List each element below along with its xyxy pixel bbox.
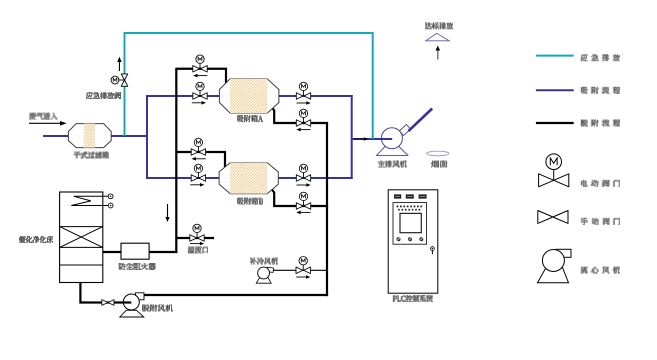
PLC key switch: [431, 247, 435, 254]
legend: desorption flow black sample line: [536, 122, 574, 124]
wire: black desorption return from box A outlet: [272, 107, 329, 123]
flow arrow right on main fan suction line: [354, 137, 368, 141]
wire: blue downcomer joining A and B outlets: [351, 95, 353, 179]
PLC knobs: [397, 237, 424, 241]
flow arrow right under V9: [190, 242, 204, 246]
main exhaust fan 主排风机: [377, 125, 411, 156]
heater element inside catalytic bed: [71, 194, 113, 208]
flow arrow right under V6: [190, 183, 204, 187]
wire: blue line dry filter to riser tee: [110, 135, 148, 137]
chimney mouth ellipse 烟囱: [427, 151, 449, 156]
PLC control cabinet PLC控制系统: [388, 190, 438, 293]
electric valve V3 on box A blue outlet: [296, 82, 310, 99]
electric valve V4 on box A black return: [296, 109, 310, 126]
wire: cyan emergency branch riser: [125, 33, 373, 139]
legend: adsorption flow blue sample line: [536, 89, 574, 91]
legend: electric valve symbol 电动阀门: [539, 154, 569, 187]
legend: manual valve symbol 手动阀门: [538, 211, 568, 224]
wire: blue inlet line to dry filter: [43, 135, 69, 137]
wire: blue riser between box A and box B feed lines: [146, 95, 148, 179]
wire: black overflow port stub: [176, 237, 214, 239]
wire: black desorption branch to box A inlet: [176, 69, 226, 84]
wire: black line catalytic bed to flame arrester: [103, 251, 122, 253]
flow arrow right under V3: [297, 101, 311, 105]
wire: black desorption left header vertical: [175, 68, 177, 253]
flow arrow right under V2: [192, 101, 206, 105]
electric valve V2 on box A blue feed: [193, 82, 207, 99]
up arrow under discharge triangle: [436, 46, 441, 60]
catalytic purification bed 催化净化床: [60, 192, 103, 283]
wire: blue outlet line from adsorption box B: [278, 177, 353, 179]
electric valve V7 on box B blue outlet: [296, 164, 310, 181]
wire: black drop from catalytic bed to desorption fan: [80, 282, 122, 303]
text labels (rasterized): [29, 113, 57, 120]
flow arrow left under V4: [296, 128, 310, 132]
dry filter box 干式过滤箱: [68, 124, 111, 148]
flow arrow right under V7: [297, 183, 311, 187]
dust flame arrester 防尘阻火器: [121, 243, 149, 259]
PLC screen: [400, 213, 421, 232]
electric valve V10 on cooling fan line: [296, 257, 310, 274]
wire: blue main fan suction line: [352, 138, 392, 140]
manual valve on desorption fan suction: [102, 300, 114, 306]
discharge-to-standard triangle 达标排放: [426, 33, 449, 41]
adsorption box B 吸附箱B: [219, 163, 278, 194]
flow arrow left under V8: [296, 211, 310, 215]
legend: emergency discharge cyan sample line: [536, 55, 574, 57]
waste gas inlet arrow 废气进入: [29, 121, 67, 126]
wire: thin line cooling fan to right header: [271, 269, 327, 271]
legend: centrifugal fan symbol 离心风机: [538, 249, 572, 282]
wire: black desorption return from box B outlet: [272, 189, 329, 206]
electric valve V1 on box A black branch: [193, 55, 207, 72]
wire: black bottom run from desorption fan to right header: [144, 294, 329, 296]
adsorption box A 吸附箱A: [219, 79, 279, 113]
PLC indicator dot rows: [397, 206, 423, 211]
electric valve V5 on box B black branch: [191, 138, 205, 155]
supplementary cooling fan 补冷风机: [256, 267, 273, 283]
wire: black desorption right header vertical: [326, 123, 328, 296]
wire: black line flame arrester to left header: [149, 251, 178, 253]
electric valve V9 on overflow port 溢流口: [190, 224, 204, 241]
electric valve V6 on box B blue feed: [191, 164, 205, 181]
wire: blue feed line into adsorption box A: [146, 95, 221, 97]
desorption fan 脱附风机: [120, 293, 144, 317]
wire: blue outlet line from adsorption box A: [277, 95, 353, 97]
electric valve V8 on box B black return: [296, 192, 310, 209]
flow arrow right under V10: [296, 275, 310, 279]
wire: blue feed line into adsorption box B: [146, 177, 221, 179]
node: flow arrow on down header: [165, 204, 169, 222]
main fan discharge duct (diagonal): [409, 109, 433, 132]
wire: black desorption branch to box B inlet: [176, 152, 225, 168]
emergency discharge valve 应急排放阀 (vertical, motorized): [111, 74, 128, 86]
flow arrow left under V5: [192, 157, 206, 161]
up arrow above emergency valve: [117, 57, 121, 71]
flow arrow left under V1: [193, 74, 207, 78]
